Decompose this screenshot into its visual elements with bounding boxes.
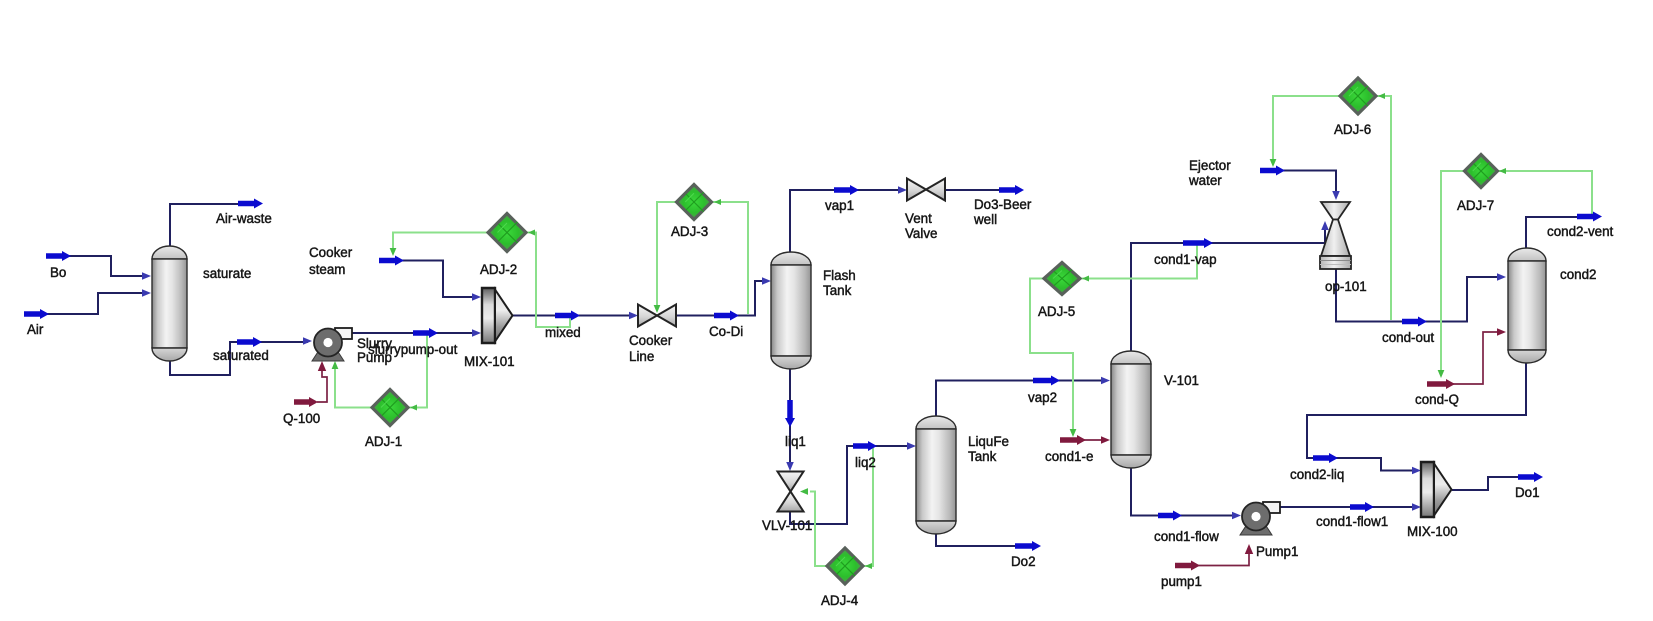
mixer MIX-100 (1421, 462, 1452, 517)
energy stream arrow Q-100 (294, 397, 318, 407)
adjust ADJ-2 (488, 214, 526, 252)
svg-text:Do3-Beer: Do3-Beer (974, 197, 1032, 212)
adjust ADJ-1 (372, 390, 408, 426)
svg-text:Tank: Tank (968, 449, 997, 464)
wire LiquFe bottom to Do2 (936, 533, 1035, 546)
svg-text:Co-Di: Co-Di (709, 324, 743, 339)
adjust ADJ-7 (1465, 155, 1498, 188)
svg-text:steam: steam (309, 262, 345, 277)
wire Ejector water to op-101 top (1280, 171, 1336, 197)
valve Cooker Line (638, 305, 676, 327)
valve Vent Valve (907, 179, 945, 201)
adjust wire ADJ-4 to VLV-101 (810, 492, 827, 567)
svg-text:vap2: vap2 (1028, 390, 1057, 405)
stream arrow saturated (237, 337, 262, 347)
stream arrow Air (24, 309, 49, 319)
svg-text:water: water (1188, 173, 1222, 188)
stream arrow cond2-vent (1577, 212, 1602, 222)
adjust wire ADJ-7 to cond-Q stream (1441, 171, 1465, 372)
ejector op-101 (1320, 202, 1351, 269)
adjust wire ADJ-7 to cond2-vent stream (1497, 171, 1592, 215)
stream arrow Bo (46, 251, 71, 261)
svg-text:Valve: Valve (905, 226, 938, 241)
svg-text:Pump1: Pump1 (1256, 544, 1298, 559)
vessel LiquFe Tank (916, 416, 956, 534)
svg-text:ADJ-2: ADJ-2 (480, 262, 517, 277)
wire Cooker Line valve / Co-Di to Flash Tank (676, 281, 767, 316)
svg-text:ADJ-4: ADJ-4 (821, 593, 859, 608)
svg-text:saturate: saturate (203, 266, 251, 281)
svg-text:Cooker: Cooker (629, 333, 673, 348)
svg-text:cond2-liq: cond2-liq (1290, 467, 1344, 482)
svg-text:Vent: Vent (905, 211, 932, 226)
energy wire pump1 to Pump1 (1197, 549, 1249, 566)
wire Cooker steam to MIX-101 (400, 261, 477, 298)
energy stream arrow cond-Q (1427, 379, 1455, 389)
wire Slurry Pump outlet / slurrypump-out to MIX-101 (350, 332, 477, 334)
adjust ADJ-3 (677, 185, 712, 220)
svg-text:Q-100: Q-100 (283, 411, 320, 426)
adjust wire ADJ-6 to Ejector water stream (1273, 96, 1340, 161)
svg-text:ADJ-1: ADJ-1 (365, 434, 402, 449)
svg-text:ADJ-6: ADJ-6 (1334, 122, 1371, 137)
wire V-101 top / cond1-vap to ejector op-101 (1131, 225, 1325, 352)
svg-text:Line: Line (629, 349, 654, 364)
svg-text:Air: Air (27, 322, 44, 337)
svg-text:cond2: cond2 (1560, 267, 1596, 282)
vessel V-101 (1111, 351, 1151, 468)
stream arrow liq1 (785, 400, 795, 427)
svg-text:liq1: liq1 (785, 434, 806, 449)
svg-text:saturated: saturated (213, 348, 269, 363)
wire V-101 bottom / cond1-flow to Pump1 (1131, 467, 1237, 516)
svg-text:well: well (973, 212, 997, 227)
wire Bo to saturate (48, 256, 147, 276)
svg-text:liq2: liq2 (855, 455, 876, 470)
wire saturate top to Air-waste (170, 204, 258, 247)
stream arrow cond-out (1402, 317, 1427, 327)
stream arrow Air-waste (238, 199, 263, 209)
wire Pump1 outlet / cond1-flow1 to MIX-100 (1280, 506, 1417, 508)
svg-text:vap1: vap1 (825, 198, 854, 213)
stream arrow Do3-Beer well (999, 185, 1024, 195)
svg-text:cond1-flow1: cond1-flow1 (1316, 514, 1388, 529)
energy wire cond-Q to cond2 (1452, 332, 1502, 384)
svg-text:Tank: Tank (823, 283, 852, 298)
svg-text:V-101: V-101 (1164, 373, 1199, 388)
valve VLV-101 (778, 472, 804, 512)
wire MIX-100 outlet to Do1 (1452, 477, 1537, 490)
stream arrow Cooker steam (379, 256, 404, 266)
stream arrow cond1-vap (1183, 238, 1213, 248)
wire Flash Tank top / vap1 to Vent Valve (790, 190, 903, 252)
wire LiquFe top / vap2 to V-101 (936, 381, 1106, 418)
svg-text:ADJ-3: ADJ-3 (671, 224, 708, 239)
svg-text:Do1: Do1 (1515, 485, 1540, 500)
stream arrow Co-Di (714, 311, 739, 321)
svg-text:slurrypump-out: slurrypump-out (368, 342, 458, 357)
stream arrow Do2 (1015, 541, 1041, 551)
adjust ADJ-4 (827, 548, 863, 584)
svg-text:MIX-101: MIX-101 (464, 354, 515, 369)
svg-text:Bo: Bo (50, 265, 66, 280)
energy wire Q-100 to Slurry Pump (317, 366, 327, 402)
svg-text:op-101: op-101 (1325, 279, 1367, 294)
svg-text:Ejector: Ejector (1189, 158, 1231, 173)
adjust wire ADJ-3 to Co-Di stream (712, 202, 748, 314)
energy stream arrow pump1 (1175, 561, 1200, 571)
svg-text:cond1-flow: cond1-flow (1154, 529, 1219, 544)
svg-text:Do2: Do2 (1011, 554, 1036, 569)
svg-text:Flash: Flash (823, 268, 856, 283)
stream arrow Do1 (1518, 472, 1543, 482)
svg-text:cond-Q: cond-Q (1415, 392, 1459, 407)
svg-text:MIX-100: MIX-100 (1407, 524, 1458, 539)
adjust wire ADJ-6 to cond-out stream (1376, 96, 1391, 320)
svg-text:LiquFe: LiquFe (968, 434, 1009, 449)
stream arrow slurrypump-out (413, 328, 438, 338)
wire cond2 top to cond2-vent (1526, 217, 1596, 249)
stream arrow vap2 (1033, 376, 1060, 386)
svg-text:cond2-vent: cond2-vent (1547, 224, 1614, 239)
wire Air to saturate (26, 293, 147, 314)
stream arrow cond1-flow1 (1350, 502, 1374, 512)
adjust wire ADJ-5 to cond1-vap stream (1080, 244, 1197, 279)
svg-text:Cooker: Cooker (309, 245, 353, 260)
svg-text:mixed: mixed (545, 325, 581, 340)
adjust ADJ-6 (1340, 78, 1376, 114)
wire Vent Valve to Do3-Beer well (945, 189, 1018, 191)
stream arrow Ejector water (1260, 166, 1285, 176)
svg-text:pump1: pump1 (1161, 574, 1202, 589)
wire VLV-101 / liq2 to LiquFe Tank (790, 446, 912, 524)
vessel cond2 (1508, 248, 1546, 363)
adjust wire ADJ-2 to mixed stream (526, 233, 570, 328)
adjust wire ADJ-1 to Slurry Pump (335, 368, 372, 408)
vessel Flash Tank (771, 252, 811, 369)
stream arrow mixed (555, 311, 580, 321)
wire saturate bottom / saturated to Slurry Pump (170, 342, 308, 375)
stream arrow vap1 (834, 185, 859, 195)
svg-text:Air-waste: Air-waste (216, 211, 272, 226)
wire cond2 bottom / cond2-liq to MIX-100 (1307, 362, 1526, 471)
wire MIX-101 outlet / mixed to Cooker Line valve (511, 315, 634, 317)
adjust wire ADJ-2 to Cooker steam stream (393, 233, 488, 251)
adjust wire ADJ-3 to Cooker Line valve (657, 202, 676, 307)
svg-text:ADJ-7: ADJ-7 (1457, 198, 1494, 213)
svg-text:cond1-vap: cond1-vap (1154, 252, 1217, 267)
pump Slurry Pump (312, 328, 352, 361)
svg-text:VLV-101: VLV-101 (762, 518, 812, 533)
wire op-101 outlet / cond-out to cond2 (1336, 269, 1502, 322)
svg-text:cond1-e: cond1-e (1045, 449, 1093, 464)
adjust wire ADJ-1 to slurrypump-out stream (408, 334, 427, 408)
adjust wire ADJ-4 to liq2 stream (863, 448, 873, 566)
stream arrow cond1-flow (1158, 511, 1182, 521)
adjust wire ADJ-5 to cond1-e stream (1030, 279, 1073, 433)
stream arrow liq2 (853, 441, 877, 451)
stream arrow cond2-liq (1313, 453, 1338, 463)
svg-text:cond-out: cond-out (1382, 330, 1434, 345)
wire Flash Tank bottom / liq1 to VLV-101 (789, 368, 791, 467)
mixer MIX-101 (482, 288, 513, 343)
svg-text:ADJ-5: ADJ-5 (1038, 304, 1075, 319)
vessel saturate (152, 246, 187, 361)
pump Pump1 (1240, 502, 1280, 535)
energy stream arrow cond1-e (1060, 435, 1086, 445)
adjust ADJ-5 (1044, 263, 1080, 295)
energy wire cond1-e to V-101 (1084, 439, 1106, 441)
